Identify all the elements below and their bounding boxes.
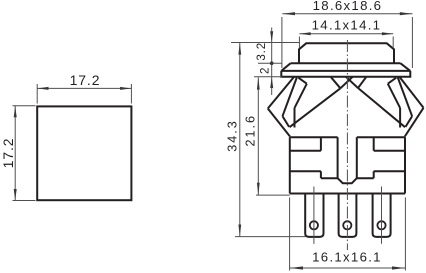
svg-text:21.6: 21.6 <box>244 114 258 147</box>
cap-top extension line (for 34.3 and 3.2) <box>231 42 299 44</box>
flange top edge <box>291 62 401 64</box>
bottom extension line for 34.3 <box>235 236 306 238</box>
svg-text:14.1x14.1: 14.1x14.1 <box>312 18 382 33</box>
dim 3.2/2: junction dot <box>270 61 274 65</box>
dim 16.1x16.1: dimension line <box>290 267 406 269</box>
dim 14.1x14.1: arrowheads <box>299 32 393 35</box>
center channel walls <box>337 137 339 178</box>
dim 18.6x18.6: extension lines <box>282 14 413 68</box>
center right wedge <box>346 77 405 127</box>
dim 3.2 and 2: shared dimension line <box>271 28 273 96</box>
pin 3 hole <box>377 221 385 229</box>
dim 18.6x18.6: arrowheads <box>283 12 413 15</box>
svg-text:34.3: 34.3 <box>226 119 240 152</box>
flange mid line <box>281 70 410 72</box>
dim 34.3: dimension line <box>239 43 241 237</box>
channel bottom notch <box>338 178 357 183</box>
dim 14.1x14.1: dimension line <box>299 33 393 35</box>
dim 16.1x16.1: extension lines <box>290 197 406 270</box>
dim 17.2 horizontal: arrowheads <box>37 87 131 90</box>
pin 3 centerline <box>381 187 383 244</box>
pin 1 hole <box>310 221 318 229</box>
extension line body bottom (for 21.6) <box>256 194 290 196</box>
dim 3.2: top outside arrowhead <box>270 31 274 88</box>
body outline <box>290 137 405 193</box>
dim 18.6x18.6: dimension line <box>282 13 412 15</box>
shelf lines lower <box>290 170 321 172</box>
flange left bevel <box>281 63 290 71</box>
flange sides+bottom <box>281 71 410 77</box>
center left wedge <box>290 77 353 127</box>
pin 2 (center terminal) <box>339 194 357 237</box>
cap front square <box>37 106 131 200</box>
svg-text:18.6x18.6: 18.6x18.6 <box>313 0 383 13</box>
dim 14.1x14.1: extension lines <box>299 34 393 48</box>
dim 17.2 vertical: dimension line <box>14 106 16 200</box>
extension line flange top (for 3.2/2) <box>258 62 282 64</box>
right snap wing <box>388 77 424 137</box>
dim 2: bottom outside arrowhead <box>270 77 273 88</box>
svg-text:17.2: 17.2 <box>70 72 101 88</box>
dim 17.2 horizontal: extension lines <box>37 84 131 104</box>
dim 17.2 vertical: extension lines <box>13 106 36 201</box>
left snap wing <box>268 77 307 137</box>
svg-text:17.2: 17.2 <box>0 138 16 169</box>
dim 17.2 vertical: arrowheads <box>14 106 17 200</box>
dim 16.1x16.1: arrowheads <box>290 266 405 269</box>
pin 1 (left terminal) <box>305 194 323 237</box>
svg-text:2: 2 <box>258 67 271 74</box>
pin 3 (right terminal) <box>373 194 391 237</box>
button cap (plunger) <box>299 43 394 63</box>
dim 21.6: arrowheads <box>257 77 260 195</box>
vertical centerline (dash-dot) <box>346 40 348 250</box>
flange right bevel <box>401 63 411 71</box>
svg-text:3.2: 3.2 <box>255 42 268 61</box>
dim 21.6: dimension line <box>257 77 259 195</box>
shelf lines upper <box>290 150 321 152</box>
dim 17.2 horizontal: dimension line <box>37 87 131 89</box>
svg-text:16.1x16.1: 16.1x16.1 <box>312 249 382 264</box>
dim 34.3: arrowheads <box>238 43 241 237</box>
pin 1 centerline <box>313 187 315 244</box>
extension line flange bottom (for 2/21.6) <box>254 76 282 78</box>
pin 2 hole <box>343 221 351 229</box>
